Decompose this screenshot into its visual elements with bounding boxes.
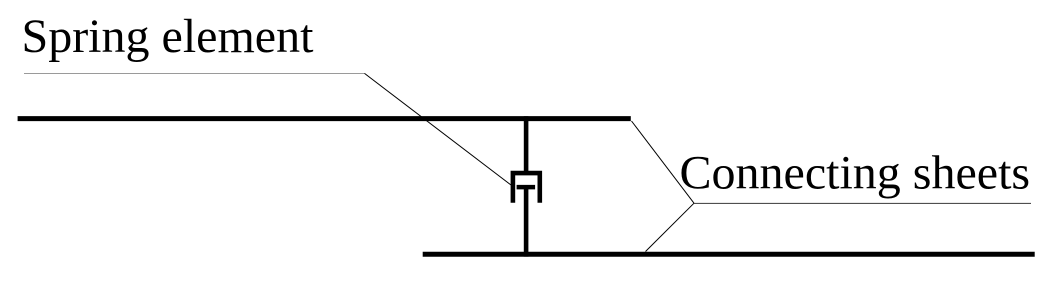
leader line: Connecting sheets diagonal to top sheet xyxy=(632,121,695,203)
svg-text:Spring element: Spring element xyxy=(22,10,315,63)
wire: upper rod of spring element xyxy=(524,116,529,173)
spring element: piston bar xyxy=(517,185,536,190)
wire: bottom connecting sheet xyxy=(423,252,1035,257)
svg-text:Connecting sheets: Connecting sheets xyxy=(680,147,1031,200)
spring element: damper cup (inverted U) xyxy=(513,173,540,203)
wire: lower rod of spring element xyxy=(524,187,529,257)
leader line: Connecting sheets underline xyxy=(694,202,1031,204)
wire: top connecting sheet xyxy=(18,116,631,121)
leader line: Connecting sheets diagonal to bottom sheet xyxy=(646,203,695,251)
leader line: Spring element horizontal segment xyxy=(24,73,365,75)
leader line: Spring element diagonal to damper xyxy=(365,73,512,185)
